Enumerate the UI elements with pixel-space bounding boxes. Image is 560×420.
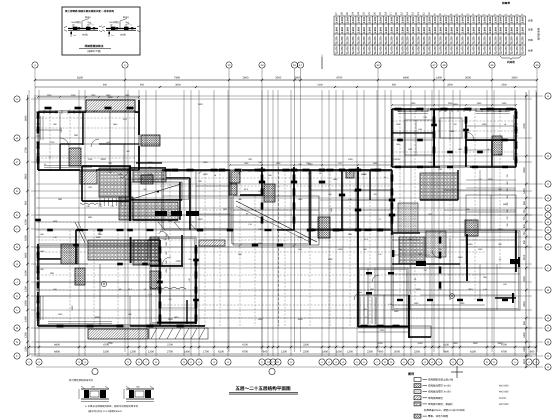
svg-text:72.470: 72.470 (483, 46, 486, 54)
unit A window double lines (40, 116, 42, 140)
svg-text:C: C (547, 183, 549, 186)
svg-text:75.370: 75.370 (483, 36, 486, 44)
top-left detail box frame (62, 7, 140, 55)
svg-text:4700: 4700 (242, 351, 248, 354)
centerline dashed vertical (278, 167, 280, 326)
hatched column D1a (229, 170, 240, 183)
interior dimension chain above unit A (38, 96, 139, 98)
svg-text:2.900: 2.900 (357, 26, 360, 33)
svg-text:4700: 4700 (336, 77, 342, 80)
svg-text:72.470: 72.470 (489, 46, 492, 54)
unit A thick wall right (138, 100, 140, 135)
svg-text:2.900: 2.900 (374, 26, 377, 33)
svg-text:3.000: 3.000 (429, 16, 432, 23)
door arcs (60, 138, 69, 147)
svg-text:72.470: 72.470 (347, 46, 350, 54)
svg-text:1000: 1000 (336, 351, 342, 354)
svg-text:M: M (16, 327, 18, 330)
svg-text:75.370: 75.370 (494, 36, 497, 44)
circle-dot symbol right (450, 294, 455, 299)
svg-text:75.370: 75.370 (467, 36, 470, 44)
window tick marks on exterior walls (36, 108, 518, 320)
hatched column E1 (318, 217, 330, 238)
svg-text:1300: 1300 (281, 351, 287, 354)
hatched column C2 (75, 268, 85, 285)
svg-text:3000: 3000 (275, 77, 281, 80)
svg-text:1780: 1780 (348, 158, 354, 161)
right tower door arcs (372, 275, 379, 282)
svg-text:1300: 1300 (473, 342, 479, 345)
svg-text:(大样): (大样) (82, 34, 88, 37)
left dimension line 2 (34, 95, 36, 356)
balcony band 2 hatch lines (149, 328, 208, 339)
unit C thick left wall (37, 244, 39, 280)
svg-text:2.900: 2.900 (412, 26, 415, 33)
svg-text:1800: 1800 (24, 300, 27, 306)
svg-text:3.000: 3.000 (347, 16, 350, 23)
svg-text:标高表: 标高表 (501, 1, 510, 5)
unit F bottom walls (392, 166, 440, 168)
svg-text:2.900: 2.900 (494, 26, 497, 33)
right tower extension outline (409, 326, 431, 337)
svg-text:900: 900 (24, 200, 27, 205)
svg-text:层高: 层高 (528, 19, 533, 22)
svg-text:现淘板加厚区 h=130: 现淘板加厚区 h=130 (428, 384, 451, 388)
svg-text:4100: 4100 (443, 344, 449, 347)
svg-text:A: A (16, 98, 18, 101)
svg-text:2.900: 2.900 (347, 26, 350, 33)
svg-text:P: P (547, 327, 549, 330)
svg-text:3.000: 3.000 (352, 16, 355, 23)
unit C extra stubs (47, 229, 53, 232)
svg-text:1400: 1400 (523, 346, 526, 352)
svg-text:4700: 4700 (523, 123, 526, 129)
svg-text:标高: 标高 (528, 39, 533, 42)
svg-text:按设计: 按设计 (85, 16, 91, 19)
svg-text:3.000: 3.000 (341, 16, 344, 23)
svg-text:75.370: 75.370 (434, 36, 437, 44)
svg-text:1300: 1300 (468, 288, 474, 291)
svg-text:72.470: 72.470 (390, 46, 393, 54)
svg-text:3600: 3600 (94, 316, 100, 319)
svg-text:现淘钢筋混凝土剪力墙: 现淘钢筋混凝土剪力墙 (428, 378, 454, 382)
svg-text:3.000: 3.000 (357, 16, 360, 23)
hatched column A2 (69, 148, 81, 166)
svg-text:H=2.900: H=2.900 (499, 403, 509, 406)
svg-text:75.370: 75.370 (347, 36, 350, 44)
right-lower outline (392, 231, 520, 310)
svg-text:72.470: 72.470 (511, 46, 514, 54)
svg-text:1400: 1400 (184, 351, 190, 354)
legend row 3 (414, 390, 421, 394)
svg-text:900: 900 (263, 351, 268, 354)
svg-text:2.900: 2.900 (489, 26, 492, 33)
right axis bubbles (545, 93, 551, 99)
structural grid horizontal axis lines (31, 96, 543, 367)
svg-text:75.370: 75.370 (396, 36, 399, 44)
right-mid small rooms (466, 195, 516, 230)
svg-text:C: C (16, 161, 18, 164)
svg-text:2.900: 2.900 (363, 26, 366, 33)
svg-text:72.470: 72.470 (440, 46, 443, 54)
beam dashed lines horizontal (38, 118, 516, 318)
svg-text:2800: 2800 (488, 178, 494, 181)
svg-text:900: 900 (140, 84, 145, 87)
svg-text:2.900: 2.900 (467, 26, 470, 33)
svg-text:3.000: 3.000 (500, 16, 503, 23)
midband extra wall stubs (172, 169, 178, 172)
svg-text:加密区: 加密区 (75, 21, 81, 24)
svg-text:K: K (16, 295, 18, 298)
svg-text:1400: 1400 (523, 188, 526, 194)
svg-text:2.900: 2.900 (407, 26, 410, 33)
top dimension line 1 (35, 79, 537, 81)
bottom axis bubbles (26, 359, 32, 365)
svg-text:72.470: 72.470 (363, 46, 366, 54)
center-right outline (310, 170, 392, 230)
unit F thick top wall (392, 108, 420, 110)
svg-text:75.370: 75.370 (423, 36, 426, 44)
svg-text:1300: 1300 (148, 351, 154, 354)
unit F thick right wall (515, 109, 517, 167)
svg-text:1400: 1400 (482, 123, 488, 126)
svg-text:72.470: 72.470 (505, 46, 508, 54)
svg-text:3.000: 3.000 (516, 16, 519, 23)
svg-text:2400: 2400 (416, 288, 422, 291)
svg-text:1030: 1030 (298, 318, 304, 321)
svg-text:7400: 7400 (198, 103, 204, 106)
svg-text:4400: 4400 (403, 77, 409, 80)
unit F thick left wall (391, 109, 393, 167)
left axis bubbles (14, 96, 20, 102)
unit C top walls (38, 258, 61, 260)
hatched column F1 (492, 136, 502, 155)
svg-text:72.470: 72.470 (374, 46, 377, 54)
svg-text:1600: 1600 (24, 235, 27, 241)
svg-text:75.370: 75.370 (341, 36, 344, 44)
bottom axis cross marker (456, 366, 458, 378)
unit A window zigzag bottom (80, 203, 98, 205)
svg-text:3.000: 3.000 (418, 16, 421, 23)
svg-text:2600: 2600 (465, 77, 471, 80)
svg-text:700: 700 (523, 231, 526, 236)
svg-text:2.900: 2.900 (379, 26, 382, 33)
hatched column G1 (465, 220, 478, 236)
svg-text:72.470: 72.470 (429, 46, 432, 54)
svg-text:3.000: 3.000 (390, 16, 393, 23)
floor elevation table (334, 15, 526, 17)
honeycomb HC2 (88, 240, 148, 260)
svg-text:1300: 1300 (468, 243, 474, 246)
svg-text:1560: 1560 (458, 256, 464, 259)
center-left thick walls (150, 265, 183, 267)
svg-text:950: 950 (523, 239, 526, 244)
svg-text:4700: 4700 (378, 342, 384, 345)
svg-text:4100: 4100 (470, 351, 476, 354)
circle-dot symbol (101, 281, 106, 286)
svg-text:D: D (16, 190, 18, 193)
svg-text:900: 900 (379, 351, 384, 354)
top dimension ticks (34, 79, 538, 88)
ramp room (233, 196, 319, 245)
svg-text:1400: 1400 (258, 318, 264, 321)
svg-text:2200: 2200 (523, 276, 526, 282)
wall between honeycombs (130, 237, 132, 263)
svg-text:1800: 1800 (60, 127, 63, 133)
svg-text:2.900: 2.900 (429, 26, 432, 33)
svg-text:1300: 1300 (328, 258, 334, 261)
svg-text:(适用本工程): (适用本工程) (87, 50, 101, 53)
svg-text:2100: 2100 (523, 254, 526, 260)
legend row 4 (414, 396, 421, 400)
interior dimension chain right unit (392, 104, 516, 106)
svg-text:1200: 1200 (24, 286, 27, 292)
svg-text:75.370: 75.370 (385, 36, 388, 44)
center band top wall (162, 169, 230, 171)
center-left honeycomb strip (150, 237, 159, 261)
svg-text:3.000: 3.000 (451, 16, 454, 23)
detail figure 2 (106, 28, 136, 30)
svg-text:3.000: 3.000 (440, 16, 443, 23)
svg-text:1300: 1300 (203, 173, 209, 176)
svg-text:3.000: 3.000 (336, 16, 339, 23)
svg-text:5. 本层未注明梯板顶标高，板厚详见结构说明专项: 5. 本层未注明梯板顶标高，板厚详见结构说明专项 (85, 404, 138, 408)
svg-text:72.470: 72.470 (434, 46, 437, 54)
core honeycomb HC0 (99, 168, 129, 197)
svg-text:3.000: 3.000 (522, 16, 525, 23)
center-right room lines (342, 199, 392, 201)
svg-text:72.470: 72.470 (418, 46, 421, 54)
svg-text:五层～二十五层结构平面图: 五层～二十五层结构平面图 (235, 386, 291, 391)
svg-text:1100: 1100 (523, 358, 526, 364)
svg-text:现淘板升板区，板面比: 现淘板升板区，板面比 (428, 402, 454, 406)
core honeycomb HC1c (133, 202, 178, 220)
core ramp diagonal (132, 184, 181, 199)
unit F outline (392, 109, 516, 167)
svg-text:2.900: 2.900 (396, 26, 399, 33)
svg-text:3400: 3400 (512, 77, 518, 80)
symmetry marker top center (321, 57, 323, 69)
svg-text:3300: 3300 (447, 84, 453, 87)
svg-text:900: 900 (103, 84, 108, 87)
svg-text:4400: 4400 (54, 344, 60, 347)
left dimension line 1 (27, 95, 29, 356)
double-line wall offsets (40, 111, 519, 326)
beam dashed lines vertical (50, 109, 500, 326)
svg-text:2400: 2400 (243, 77, 249, 80)
svg-text:G: G (16, 246, 18, 249)
svg-text:1400: 1400 (24, 252, 27, 258)
svg-text:25d: 25d (125, 21, 128, 24)
svg-text:机房层: 机房层 (507, 60, 515, 64)
svg-text:3.000: 3.000 (379, 16, 382, 23)
svg-text:72.470: 72.470 (467, 46, 470, 54)
svg-text:B: B (16, 137, 18, 140)
svg-text:标高高差20mm，配筋✓10@200双层: 标高高差20mm，配筋✓10@200双层 (424, 408, 465, 412)
top dimension line 2 (35, 86, 537, 88)
svg-text:D: D (547, 197, 549, 200)
balcony hatch band (diagonal) (88, 329, 148, 339)
svg-text:1400: 1400 (24, 316, 27, 322)
svg-text:3.000: 3.000 (478, 16, 481, 23)
svg-text:N: N (547, 317, 549, 320)
hatched column C1 (61, 244, 78, 264)
top axis bubbles (32, 62, 38, 68)
svg-text:层高: 层高 (528, 28, 533, 31)
unit A top hatched band (diagonal) (86, 100, 135, 112)
svg-text:3.000: 3.000 (472, 16, 475, 23)
right dimension line 1 (525, 92, 527, 368)
center-left room lines (160, 295, 196, 297)
svg-text:75.370: 75.370 (461, 36, 464, 44)
center band rooms (162, 170, 230, 230)
svg-text:75.370: 75.370 (440, 36, 443, 44)
svg-text:1400: 1400 (322, 351, 328, 354)
svg-text:Q: Q (547, 341, 549, 344)
svg-text:3.000: 3.000 (494, 16, 497, 23)
svg-text:72.470: 72.470 (500, 46, 503, 54)
svg-text:75.370: 75.370 (401, 36, 404, 44)
svg-text:E: E (547, 207, 549, 210)
svg-text:2.900: 2.900 (352, 26, 355, 33)
svg-text:2.900: 2.900 (461, 26, 464, 33)
svg-text:1300: 1300 (130, 351, 136, 354)
core ramp room (131, 182, 182, 200)
core diagonal hatch block (80, 171, 97, 184)
svg-text:2.900: 2.900 (511, 26, 514, 33)
svg-text:3400: 3400 (443, 351, 449, 354)
svg-text:72.470: 72.470 (368, 46, 371, 54)
svg-text:900: 900 (392, 84, 397, 87)
svg-text:梁上部钢筋 锚固长度及搭接长度 一览表说明: 梁上部钢筋 锚固长度及搭接长度 一览表说明 (64, 9, 114, 13)
center-right walls (341, 170, 343, 230)
svg-text:2800: 2800 (523, 301, 526, 307)
svg-text:P: P (16, 355, 18, 358)
svg-text:3.000: 3.000 (456, 16, 459, 23)
svg-text:72.470: 72.470 (456, 46, 459, 54)
honeycomb HC3 (133, 240, 160, 265)
unit A thick wall bottom (38, 169, 80, 171)
svg-text:4700: 4700 (107, 342, 113, 345)
svg-text:72.470: 72.470 (494, 46, 497, 54)
svg-text:72.470: 72.470 (341, 46, 344, 54)
svg-text:72.470: 72.470 (407, 46, 410, 54)
svg-text:2550: 2550 (148, 173, 154, 176)
stair2 treads (360, 297, 376, 324)
unit A thick walls top (38, 111, 58, 113)
svg-text:75.370: 75.370 (456, 36, 459, 44)
unit A thick wall left (37, 112, 39, 130)
right-lower thick walls (466, 234, 468, 281)
svg-text:72.470: 72.470 (522, 46, 525, 54)
elevator door leaves (158, 222, 165, 230)
svg-text:1400: 1400 (338, 248, 344, 251)
svg-text:S: S (547, 366, 549, 369)
honeycomb HC4 (420, 173, 458, 200)
midband extra room lines (233, 209, 319, 211)
svg-text:R: R (547, 355, 549, 358)
svg-text:1460: 1460 (95, 236, 101, 239)
fine hatch HC5 right (426, 231, 446, 257)
svg-text:2.900: 2.900 (440, 26, 443, 33)
unit A interior walls (82, 112, 84, 145)
svg-text:8100: 8100 (77, 77, 83, 80)
table bottom bracket (500, 56, 521, 60)
svg-text:2.900: 2.900 (505, 26, 508, 33)
svg-text:1300: 1300 (168, 318, 174, 321)
scattered shear wall stubs (45, 107, 52, 110)
svg-text:4100: 4100 (218, 351, 224, 354)
unit C room lines (38, 281, 160, 283)
svg-text:75.370: 75.370 (505, 36, 508, 44)
svg-text:2300: 2300 (414, 351, 420, 354)
svg-text:2700: 2700 (167, 344, 173, 347)
svg-text:75.370: 75.370 (500, 36, 503, 44)
unit A room lines (59, 112, 61, 144)
svg-text:72.470: 72.470 (461, 46, 464, 54)
svg-text:72.470: 72.470 (357, 46, 360, 54)
svg-text:2.900: 2.900 (434, 26, 437, 33)
svg-text:M: M (547, 289, 549, 292)
svg-text:2400: 2400 (498, 228, 504, 231)
fine hatch F2 (398, 203, 418, 233)
scattered shear wall stubs vertical (37, 112, 40, 119)
svg-text:H: H (547, 229, 549, 232)
svg-text:1300: 1300 (24, 332, 27, 338)
core honeycomb HC1a (133, 170, 166, 182)
svg-text:800: 800 (523, 223, 526, 228)
svg-text:75.370: 75.370 (352, 36, 355, 44)
unit F extra stubs (397, 139, 403, 142)
svg-text:75.370: 75.370 (368, 36, 371, 44)
svg-text:72.470: 72.470 (472, 46, 475, 54)
svg-text:3600: 3600 (175, 84, 181, 87)
center-left door arc (162, 257, 171, 266)
svg-text:75.370: 75.370 (336, 36, 339, 44)
svg-text:2.900: 2.900 (390, 26, 393, 33)
svg-text:栗板，详见大样图: 栗板，详见大样图 (428, 414, 449, 418)
unit F extra lines (439, 120, 441, 138)
svg-text:3400: 3400 (498, 342, 504, 345)
unit C interior walls (75, 230, 77, 264)
svg-text:1600: 1600 (71, 305, 74, 311)
svg-text:加密区: 加密区 (113, 21, 119, 24)
svg-text:700: 700 (523, 216, 526, 221)
svg-text:75.370: 75.370 (478, 36, 481, 44)
hatched column D1b (229, 184, 237, 195)
unit F interior walls (433, 109, 435, 167)
svg-text:3.000: 3.000 (489, 16, 492, 23)
bottom secondary axis bubbles (92, 368, 98, 374)
dimension chain right-lower (392, 304, 485, 306)
small hatch E2 (346, 170, 354, 178)
svg-text:72.470: 72.470 (396, 46, 399, 54)
svg-text:现淘板加厚区 h=150: 现淘板加厚区 h=150 (428, 390, 451, 394)
legend row 7 (414, 414, 421, 418)
svg-text:75.370: 75.370 (472, 36, 475, 44)
svg-text:3.000: 3.000 (434, 16, 437, 23)
svg-text:72.470: 72.470 (401, 46, 404, 54)
svg-text:1460: 1460 (298, 236, 304, 239)
svg-text:75.370: 75.370 (451, 36, 454, 44)
right tower left wall (357, 167, 359, 327)
svg-text:4400: 4400 (54, 351, 60, 354)
svg-text:2700: 2700 (167, 351, 173, 354)
right tower lower room lines (367, 268, 369, 326)
svg-text:2.900: 2.900 (478, 26, 481, 33)
svg-text:2.900: 2.900 (500, 26, 503, 33)
legend row 1 (414, 378, 421, 382)
